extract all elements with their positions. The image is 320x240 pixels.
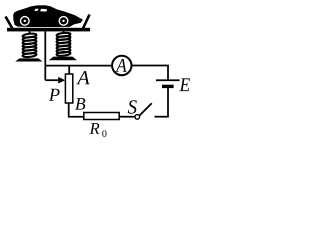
wire: top horizontal to ammeter xyxy=(45,65,113,67)
resistor R0 xyxy=(84,113,119,120)
switch S pivot circle xyxy=(135,115,140,120)
right spring xyxy=(56,31,70,56)
left spring base xyxy=(15,58,42,61)
label E xyxy=(179,78,190,91)
label B xyxy=(75,98,85,110)
label S xyxy=(128,100,137,113)
car body xyxy=(13,5,83,27)
right spring base xyxy=(49,57,77,61)
wire: rheostat top stub xyxy=(68,66,70,74)
rheostat box xyxy=(65,74,72,103)
platform xyxy=(7,28,90,32)
wire: bottom left horizontal xyxy=(68,116,84,118)
wire: right vertical below battery xyxy=(167,88,169,118)
ammeter A xyxy=(112,56,131,75)
label A (rheostat top terminal) xyxy=(76,71,89,84)
wire: right vertical above battery xyxy=(167,66,169,81)
wire: rheostat bottom stub xyxy=(68,103,70,117)
wire: bottom right segment xyxy=(155,116,169,118)
label R0 xyxy=(90,123,100,134)
slider arrow head P xyxy=(58,77,65,84)
platform right flare xyxy=(83,15,90,30)
wire: slider vertical + top wire left segment xyxy=(44,31,46,80)
car rear wheel xyxy=(59,16,69,26)
left spring xyxy=(22,31,36,57)
car windows xyxy=(34,9,39,11)
platform left flare xyxy=(6,17,14,30)
battery short plate xyxy=(162,85,174,88)
wire: top right horizontal xyxy=(132,65,169,67)
switch lever xyxy=(140,103,152,115)
label P xyxy=(49,89,60,101)
wire: resistor to switch xyxy=(119,116,135,118)
car front wheel xyxy=(20,16,30,26)
wire: slider horizontal xyxy=(45,79,59,81)
battery long plate xyxy=(156,79,180,81)
